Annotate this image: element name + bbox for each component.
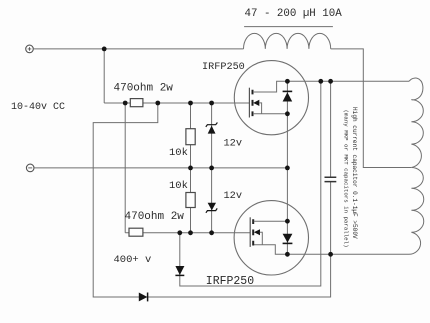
- MOSFET Q1 circle: [234, 61, 308, 135]
- wire gate A cross branch to drain B: [93, 103, 330, 297]
- svg-text:47 - 200 µH 10A: 47 - 200 µH 10A: [245, 8, 343, 20]
- MOSFET Q2 circle: [234, 201, 308, 275]
- node gate B diode: [177, 230, 182, 235]
- wire drain B bottom rail: [253, 245, 409, 255]
- node ground zener: [209, 166, 214, 171]
- node gate A: [155, 101, 160, 106]
- Q2 arrow connector: [260, 232, 263, 245]
- svg-text:IRFP250: IRFP250: [202, 62, 245, 73]
- wire 10k upper column: [190, 103, 192, 168]
- Q2 channel ticks: [252, 219, 254, 245]
- Q2 substrate arrow: [254, 229, 260, 235]
- terminal minus: [26, 164, 34, 172]
- svg-text:12v: 12v: [224, 137, 243, 149]
- wire gate B cross branch to drain A: [180, 81, 321, 286]
- node zener top: [209, 101, 214, 106]
- wire 10k lower column: [190, 168, 192, 233]
- node drain A: [285, 79, 290, 84]
- resistor R4 470ohm: [129, 228, 143, 236]
- Q1 body diode: [283, 81, 293, 114]
- wire gate rail A: [104, 102, 249, 104]
- node ground source: [285, 166, 290, 171]
- wire ground rail: [34, 167, 287, 169]
- capacitor C1: [325, 177, 337, 181]
- resistor R2 10k: [186, 129, 195, 145]
- Q1 channel ticks: [252, 90, 254, 116]
- wire top rail V+: [33, 48, 243, 50]
- Q2 source lead: [254, 220, 288, 222]
- node zener bottom: [209, 230, 214, 235]
- node 10k bottom: [188, 230, 193, 235]
- svg-text:High current capacitor 0.1-1µF: High current capacitor 0.1-1µF >500V: [351, 107, 358, 239]
- wire zener lower column: [211, 168, 213, 233]
- terminal plus: [26, 45, 34, 53]
- inductor bar: [244, 26, 333, 28]
- svg-text:400+ v: 400+ v: [114, 254, 152, 266]
- node Q2 drain: [285, 252, 290, 257]
- wire drain A line: [287, 80, 409, 82]
- diode D3: [175, 266, 184, 275]
- work coil: [409, 78, 424, 254]
- Q1 source lead: [253, 113, 287, 115]
- inductor L1: [244, 33, 331, 49]
- node A1: [123, 101, 128, 106]
- svg-text:12v: 12v: [224, 190, 243, 202]
- node drain A cap: [328, 79, 333, 84]
- wire rail B from node A1 down and across: [125, 103, 250, 233]
- wire inductor right to coil center tap: [331, 49, 412, 168]
- diode D4: [139, 293, 148, 302]
- Q1 arrow connector: [259, 103, 262, 114]
- svg-text:470ohm 2w: 470ohm 2w: [125, 211, 185, 223]
- wire source link Q1 to ground to Q2: [286, 114, 288, 221]
- Q1 gate bar: [248, 88, 250, 118]
- Q2 gate bar: [249, 217, 251, 247]
- svg-text:470ohm 2w: 470ohm 2w: [114, 83, 174, 95]
- node 10k top: [188, 101, 193, 106]
- node Q2 source: [285, 219, 290, 224]
- svg-text:10-40v CC: 10-40v CC: [11, 102, 65, 113]
- Q1 drain lead: [253, 81, 287, 92]
- node Q1 source: [285, 111, 290, 116]
- wire V+ feed down: [103, 49, 105, 103]
- wire zener upper column: [211, 103, 213, 168]
- svg-text:(many MKP or MKT capacitors in: (many MKP or MKT capacitors in parallel): [343, 110, 350, 248]
- wire capacitor column: [330, 81, 332, 254]
- Q2 body diode: [283, 221, 293, 254]
- node drain B cap: [328, 252, 333, 257]
- node drain A cross: [318, 79, 323, 84]
- svg-text:10k: 10k: [169, 180, 188, 192]
- resistor R3 10k: [186, 193, 195, 208]
- resistor R1 470ohm: [130, 99, 143, 107]
- svg-text:IRFP250: IRFP250: [206, 275, 254, 288]
- zener D2 12v: [206, 203, 217, 213]
- node V+ junction: [102, 47, 107, 52]
- node ground 10k: [188, 166, 193, 171]
- svg-text:10k: 10k: [169, 147, 188, 159]
- Q1 substrate arrow: [253, 100, 259, 106]
- zener D1 12v: [206, 123, 218, 134]
